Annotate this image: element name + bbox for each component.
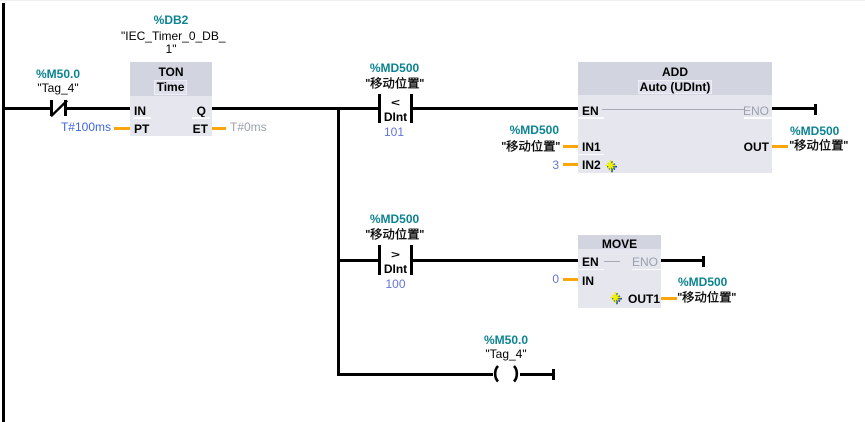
coil operand Tag_4 xyxy=(468,347,544,361)
wire Q to branch junction and comparator 1 xyxy=(212,107,379,110)
pin EN xyxy=(582,255,599,269)
ENO wire xyxy=(772,107,815,110)
timer DB label %DB2 xyxy=(131,13,211,27)
PT stub xyxy=(114,127,130,130)
left power rail xyxy=(2,3,5,422)
pin OUT xyxy=(729,140,769,154)
pin ET xyxy=(168,122,208,136)
IN stub xyxy=(563,278,578,281)
contact M50.0 left bar xyxy=(50,100,53,116)
ADD IN2 constant 3 xyxy=(489,158,559,172)
timer DB name line 2 xyxy=(121,42,221,56)
node Tag_4 label xyxy=(20,81,96,95)
pin IN xyxy=(134,104,146,118)
node %M50.0 label xyxy=(20,67,96,81)
ADD block xyxy=(578,62,772,95)
ADD IN1 operand %MD500 xyxy=(489,123,559,137)
ET value T#0ms xyxy=(230,120,267,134)
MOVE ENO end tick xyxy=(702,256,705,267)
pin ENO xyxy=(729,104,769,118)
coil Tag_4 xyxy=(489,365,525,383)
top border line xyxy=(0,0,865,1)
ADD OUT operand %MD500 xyxy=(790,124,839,138)
EN-ENO gray line xyxy=(602,109,745,110)
pin Q xyxy=(166,104,206,118)
comparator 1 constant 101 xyxy=(379,125,409,139)
pin PT xyxy=(134,122,149,136)
wire comparator2 to MOVE xyxy=(413,259,578,262)
ADD IN1 operand name xyxy=(501,140,561,154)
ET stub xyxy=(212,127,226,130)
IN1 stub xyxy=(563,145,578,148)
wire comparator1 to ADD xyxy=(413,107,578,110)
coil end tick xyxy=(552,369,555,380)
pin IN1 xyxy=(582,140,601,154)
ADD OUT operand name xyxy=(789,139,849,153)
OUT stub xyxy=(772,145,788,148)
timer TON block xyxy=(130,62,212,96)
pin EN xyxy=(582,104,599,118)
modified asterisk icon 1 xyxy=(605,160,619,174)
IN constant 0 xyxy=(489,272,559,286)
contact M50.0 right bar xyxy=(64,100,67,116)
coil operand %M50.0 xyxy=(468,333,544,347)
pin ENO xyxy=(632,255,658,269)
rung3 wire from branch to coil xyxy=(340,373,493,376)
comparator 2 operand %MD500 xyxy=(358,212,431,226)
MOVE OUT1 operand %MD500 xyxy=(678,275,727,289)
branch vertical wire xyxy=(337,107,340,376)
IN2 stub xyxy=(563,163,578,166)
pin IN2 xyxy=(582,158,601,172)
MOVE block xyxy=(578,235,661,249)
comparator 2 constant 100 xyxy=(379,277,412,291)
MOVE ENO wire xyxy=(661,259,705,262)
comparator 1 < DInt xyxy=(378,94,381,123)
pin IN xyxy=(582,274,594,288)
EN-ENO gray dash xyxy=(604,261,620,262)
wire contact to TON xyxy=(67,107,130,110)
ENO end tick xyxy=(814,104,817,115)
wire coil to tick xyxy=(520,373,553,376)
PT value T#100ms xyxy=(41,120,111,134)
comparator 2 > DInt xyxy=(378,245,381,275)
comparator 2 operand name xyxy=(365,228,425,242)
comparator 1 operand %MD500 xyxy=(358,61,431,75)
wire rail to contact xyxy=(2,107,51,110)
rung2 wire from branch to comparator 2 xyxy=(340,259,378,262)
OUT1 stub xyxy=(661,297,677,300)
modified asterisk icon 2 xyxy=(610,292,624,306)
contact NC slash xyxy=(44,94,74,122)
MOVE OUT1 operand name xyxy=(677,291,737,305)
pin OUT1 xyxy=(620,292,660,306)
comparator 1 operand name xyxy=(365,77,425,91)
timer DB name line 1 xyxy=(121,29,221,43)
